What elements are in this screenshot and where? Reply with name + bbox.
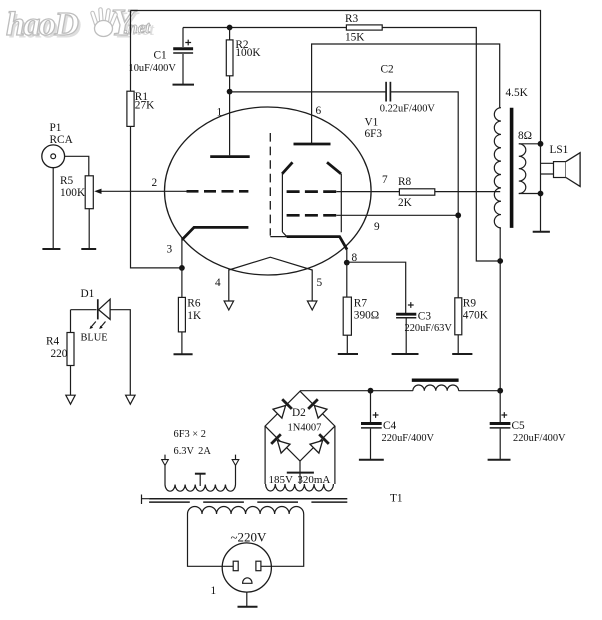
pentode screen box (282, 162, 347, 249)
svg-text:6F3: 6F3 (365, 128, 383, 140)
svg-text:T1: T1 (390, 493, 403, 505)
diode bridge top-left (273, 406, 286, 419)
wire grid to R5 wiper (97, 190, 187, 192)
pin 9 grid dashed row (287, 215, 380, 233)
svg-text:15K: 15K (345, 32, 365, 44)
svg-text:1: 1 (211, 585, 217, 597)
svg-text:6F3 × 2: 6F3 × 2 (174, 429, 206, 440)
svg-text:9: 9 (374, 221, 380, 233)
svg-text:C1: C1 (154, 50, 167, 62)
wire bridge AC left (264, 426, 266, 484)
ground C3 (392, 353, 419, 355)
svg-text:8Ω: 8Ω (518, 130, 532, 142)
resistor R3 (345, 13, 382, 44)
winding 185V (266, 474, 334, 491)
ground HV center tap (287, 472, 314, 474)
svg-text:3: 3 (167, 243, 173, 255)
wire bridge + output (300, 390, 371, 392)
svg-text:1K: 1K (187, 310, 202, 322)
svg-text:P1: P1 (50, 122, 62, 134)
node junction R2 top (227, 25, 233, 31)
svg-text:R3: R3 (345, 13, 359, 25)
pin 3 triode cathode (167, 227, 249, 268)
node junction secondary top (538, 141, 544, 147)
svg-text:100K: 100K (60, 187, 86, 199)
svg-text:220uF/400V: 220uF/400V (513, 433, 566, 444)
wire top feedback rail from speaker to R1 (131, 11, 541, 144)
pin 8 cathode wire (347, 249, 358, 264)
wire left frame down to R1 (130, 11, 132, 92)
node junction C4 (368, 388, 374, 394)
node junction pin8/R7/C3 (344, 260, 350, 266)
svg-text:R5: R5 (60, 175, 74, 187)
wire plug ground (246, 592, 248, 607)
svg-text:0.22uF/400V: 0.22uF/400V (380, 103, 436, 114)
ground C4 (359, 459, 384, 461)
node junction R2 bottom / pin1 / C2 (227, 89, 233, 95)
winding 6.3V (165, 429, 236, 491)
svg-text:R4: R4 (46, 336, 60, 348)
svg-text:R8: R8 (398, 176, 412, 188)
wire R1 bottom to cathode junction (131, 126, 182, 268)
capacitor C2 0.22uF/400V (380, 63, 436, 114)
ground C5 (488, 459, 511, 461)
svg-text:D2: D2 (292, 407, 306, 419)
wire bridge bottom to HV center tap (299, 461, 301, 484)
svg-text:C3: C3 (418, 310, 432, 322)
wire P1 bottom (52, 168, 54, 249)
pin 1 wire and triode plate (210, 92, 250, 157)
svg-text:6.3V 2A: 6.3V 2A (174, 446, 212, 457)
pin 2 triode grid dashed (152, 177, 249, 192)
ground R9 (452, 353, 472, 355)
ground R5 (81, 248, 96, 250)
svg-text:390Ω: 390Ω (354, 310, 379, 322)
svg-text:27K: 27K (135, 100, 155, 112)
tube V1 6F3 envelope (164, 107, 371, 275)
wire R5 bottom (88, 209, 90, 249)
svg-text:LS1: LS1 (550, 144, 569, 156)
resistor R2 (226, 28, 261, 92)
svg-text:185V 320mA: 185V 320mA (269, 474, 331, 486)
ground P1 (42, 248, 60, 250)
node junction cathode/R1/R6 (179, 265, 185, 271)
heater winding arrow left (162, 460, 169, 466)
speaker LS1 (541, 144, 581, 187)
ground speaker (533, 231, 550, 233)
svg-text:470K: 470K (463, 309, 489, 321)
svg-text:4: 4 (215, 277, 221, 289)
svg-text:.net: .net (124, 18, 151, 37)
svg-text:R9: R9 (463, 297, 477, 309)
wire pin7 to R8 (336, 191, 399, 193)
ground plug (238, 606, 258, 608)
pin 7 grid dashed row (287, 174, 388, 192)
svg-text:1: 1 (217, 107, 223, 119)
wire C2 right down to R9/pin9 node (390, 92, 458, 298)
svg-text:100K: 100K (235, 47, 261, 59)
potentiometer R5 (60, 175, 102, 209)
svg-text:R7: R7 (354, 297, 368, 309)
LED D1 BLUE (71, 288, 131, 395)
svg-text:~220V: ~220V (231, 530, 268, 545)
wire primary bottom to B+ (499, 228, 501, 391)
svg-text:C2: C2 (381, 63, 395, 75)
wire C1/R2 node to R3 and feedback drop (183, 28, 500, 262)
wire pin9 to C2/R9 node (336, 214, 458, 216)
diode bridge bottom-right (310, 441, 323, 454)
bridge rectifier D2 1N4007 (265, 391, 335, 461)
svg-text:220: 220 (51, 348, 68, 360)
heater winding arrow right (232, 460, 239, 466)
heater center tap ground (195, 474, 206, 486)
svg-text:220uF/400V: 220uF/400V (382, 433, 435, 444)
node junction feedback tap (497, 258, 503, 264)
haoDIY.net watermark logo (6, 2, 155, 47)
svg-text:V1: V1 (365, 117, 379, 129)
resistor R4 (46, 310, 74, 396)
wire bridge AC right (334, 426, 336, 484)
svg-text:2K: 2K (398, 197, 413, 209)
winding 220V primary (188, 507, 304, 567)
svg-text:2: 2 (152, 177, 158, 189)
capacitor C3 220uF/63V (347, 262, 453, 354)
svg-text:R6: R6 (187, 297, 201, 309)
svg-text:6: 6 (316, 105, 322, 117)
pin 4 heater arrow (224, 301, 234, 310)
mains plug (211, 543, 272, 597)
node junction C5/B+ (497, 388, 503, 394)
svg-text:5: 5 (317, 277, 323, 289)
svg-text:7: 7 (382, 174, 388, 186)
filter choke (371, 380, 501, 391)
svg-text:haoD: haoD (6, 6, 78, 43)
RCA jack P1 (42, 122, 74, 168)
svg-text:BLUE: BLUE (81, 333, 108, 344)
internal shield dashed (270, 133, 286, 237)
resistor R6 (178, 268, 202, 354)
resistor R7 (343, 263, 379, 354)
diode bridge bottom-left (277, 441, 290, 454)
heater filament (215, 257, 323, 301)
wire plate node to C2 (230, 91, 386, 93)
ground R6 (174, 353, 193, 355)
diode bridge top-right (314, 406, 327, 419)
resistor R9 (455, 297, 489, 354)
ground R7 (338, 353, 358, 355)
output transformer primary 4.5K (494, 87, 528, 228)
pin 6 wire and pentode plate (294, 44, 500, 144)
transformer core bar (510, 108, 514, 228)
pin 5 heater arrow (307, 301, 317, 310)
resistor R8 (398, 176, 500, 209)
node junction pin9/C2/R9 (455, 212, 461, 218)
svg-text:C4: C4 (383, 420, 397, 432)
svg-text:1N4007: 1N4007 (288, 423, 322, 434)
capacitor C5 220uF/400V (490, 391, 566, 460)
svg-text:10uF/400V: 10uF/400V (129, 63, 177, 74)
svg-text:D1: D1 (81, 288, 95, 300)
svg-text:RCA: RCA (50, 134, 74, 146)
wire P1 to R5 top (65, 156, 89, 176)
capacitor C1 10uF/400V (129, 28, 194, 85)
svg-text:C5: C5 (512, 420, 526, 432)
capacitor C4 220uF/400V (361, 391, 435, 460)
output transformer secondary 8 ohm (518, 130, 532, 194)
ground C1 (173, 84, 195, 86)
svg-text:4.5K: 4.5K (506, 87, 529, 99)
transformer T1 core (142, 493, 403, 505)
heater arrow below R4 (66, 395, 75, 404)
wire secondary to speaker (519, 144, 541, 232)
heater return arrow right of D1 (126, 395, 136, 404)
svg-text:220uF/63V: 220uF/63V (405, 323, 453, 334)
node junction secondary bottom (538, 191, 544, 197)
resistor R1 (127, 91, 155, 127)
